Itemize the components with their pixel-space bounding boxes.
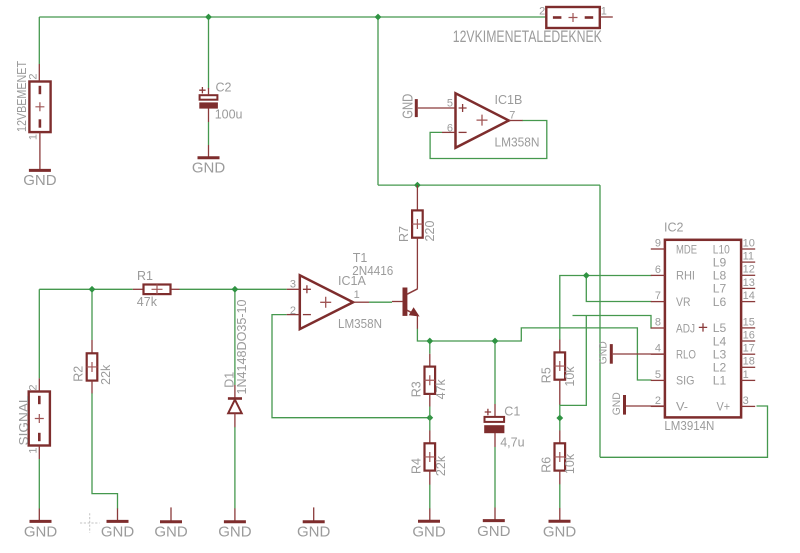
connector 12VBEMENET pin mark 2 — [39, 86, 42, 94]
diode D1 bottom lead — [234, 413, 236, 427]
svg-text:GND: GND — [154, 524, 188, 541]
connector SIGNAL pin mark 2 — [38, 396, 41, 404]
svg-text:12VKIMENETALEDEKNEK: 12VKIMENETALEDEKNEK — [453, 28, 602, 46]
pin 7 lead of IC2 (VR) — [651, 301, 665, 303]
svg-text:2: 2 — [539, 6, 545, 18]
ground GND below C1 — [483, 519, 505, 522]
ground lead R6 — [559, 508, 561, 521]
svg-text:15: 15 — [743, 316, 755, 328]
connector SIGNAL pin lead 1 bottom — [38, 446, 40, 459]
svg-text:9: 9 — [655, 237, 661, 249]
svg-text:V+: V+ — [717, 400, 731, 414]
op-amp IC1A pin3 lead — [287, 288, 300, 290]
resistor R2 body — [87, 353, 98, 380]
op-amp IC1B pin7 output lead — [509, 120, 523, 122]
ground GND orphan left — [160, 520, 182, 523]
resistor R5 top lead — [559, 340, 561, 353]
svg-text:R3: R3 — [409, 381, 423, 397]
op-amp IC1A triangle — [300, 275, 353, 329]
transistor T1 emitter diagonal — [407, 310, 418, 315]
ground lead C2 — [208, 145, 210, 158]
resistor R5 body — [555, 352, 566, 379]
svg-text:17: 17 — [743, 343, 755, 355]
transistor T1 base lead — [392, 301, 403, 303]
wire R6 bottom to GND — [559, 484, 561, 508]
capacitor C1 top lead — [494, 404, 496, 417]
wire C1 bottom to GND — [494, 447, 496, 508]
wire R3 bottom to node — [429, 407, 431, 418]
svg-text:L9: L9 — [713, 255, 727, 269]
capacitor C2 top lead — [208, 88, 210, 95]
svg-text:R7: R7 — [397, 226, 411, 242]
svg-text:16: 16 — [743, 329, 755, 341]
junction node D1 on signal net — [232, 286, 239, 293]
op-amp IC1A origin cross — [320, 297, 331, 308]
op-amp IC1A pin2 lead — [287, 314, 300, 316]
svg-text:10: 10 — [743, 237, 755, 249]
svg-text:5: 5 — [655, 369, 661, 381]
svg-text:GND: GND — [218, 524, 252, 541]
wire signal net left segment — [39, 288, 133, 290]
svg-text:R5: R5 — [540, 367, 554, 383]
junction node C1 emitter — [492, 338, 499, 345]
svg-text:LM358N: LM358N — [338, 317, 382, 331]
svg-text:1: 1 — [28, 134, 40, 140]
op-amp IC1A plus input mark — [303, 285, 311, 293]
op-amp IC1B minus input mark — [459, 131, 467, 133]
resistor R4 body — [425, 443, 436, 470]
junction node R2 on signal net — [89, 286, 96, 293]
capacitor C2 top plate — [200, 95, 218, 100]
ground lead SIGNAL — [38, 509, 40, 522]
pin 12 lead of IC2 (L8) — [741, 274, 755, 276]
svg-text:1: 1 — [743, 369, 749, 381]
capacitor C1 top plate — [485, 417, 505, 422]
svg-text:RLO: RLO — [676, 348, 696, 362]
svg-text:2: 2 — [28, 73, 40, 79]
wire SIGNAL pin1 to GND — [38, 459, 40, 509]
resistor R3 top lead — [429, 354, 431, 367]
svg-text:IC1B: IC1B — [495, 93, 523, 107]
transistor T1 emitter lead down — [416, 316, 418, 329]
wire mid 12V rail — [378, 184, 600, 186]
connector 12VKIMENETALEDEKNEK pin mark 2 — [553, 16, 562, 19]
ground GND below R4 — [418, 520, 440, 523]
ground lead D1 — [234, 508, 236, 521]
connector SIGNAL body — [29, 392, 50, 446]
capacitor C1 bottom lead — [494, 433, 496, 447]
connector SIGNAL pin lead 2 top — [38, 378, 40, 391]
connector SIGNAL origin cross — [35, 414, 44, 423]
diode D1 top lead — [234, 385, 236, 398]
pin 9 lead of IC2 (MDE) — [651, 248, 665, 250]
svg-text:R2: R2 — [71, 366, 85, 382]
wire 12V top rail — [39, 16, 546, 18]
svg-text:47k: 47k — [137, 295, 158, 309]
pin 5 lead of IC2 (SIG) — [651, 379, 665, 381]
resistor R4 top lead — [429, 431, 431, 444]
svg-text:7: 7 — [655, 290, 661, 302]
svg-text:GND: GND — [24, 524, 58, 541]
svg-text:100u: 100u — [215, 108, 243, 122]
wire ADJ horizontal — [573, 316, 652, 329]
svg-text:L10: L10 — [713, 242, 730, 256]
connector 12VBEMENET origin cross — [35, 102, 44, 111]
wire SIGNAL connector drop — [38, 289, 40, 378]
op-amp IC1A pin1 output lead — [353, 301, 369, 303]
resistor R3 bottom lead — [429, 394, 431, 407]
svg-text:47k: 47k — [434, 378, 448, 399]
wire RHI to VR link — [586, 276, 651, 302]
svg-text:4,7u: 4,7u — [500, 436, 524, 450]
svg-text:6: 6 — [655, 264, 661, 276]
svg-text:8: 8 — [655, 316, 661, 328]
wire R5 bottom node — [559, 404, 561, 431]
svg-text:GND: GND — [412, 524, 446, 541]
resistor R6 body — [555, 443, 566, 470]
svg-text:R6: R6 — [540, 457, 554, 473]
resistor R6 top lead — [559, 431, 561, 444]
transistor T1 collector wire — [416, 252, 418, 289]
ground GND below D1 — [224, 520, 246, 523]
svg-text:LM3914N: LM3914N — [664, 419, 714, 433]
connector 12VKIMENETALEDEKNEK pin 1 lead — [600, 16, 613, 18]
transistor T1 emitter arrow — [410, 308, 419, 316]
svg-text:L7: L7 — [713, 282, 727, 296]
ground lead R4 — [429, 508, 431, 521]
resistor R4 bottom lead — [429, 471, 431, 485]
ground stub left orphan — [170, 507, 172, 521]
svg-text:L5: L5 — [713, 321, 727, 335]
wire node to R4 top — [429, 418, 431, 431]
resistor R7 top lead — [416, 185, 418, 210]
svg-text:22k: 22k — [99, 364, 113, 385]
connector 12VKIMENETALEDEKNEK origin cross — [569, 13, 578, 22]
svg-text:L3: L3 — [713, 348, 727, 362]
ground GND below C2 — [198, 156, 220, 159]
capacitor C2 polarity plus — [199, 87, 205, 93]
wire 12V rail drop to 12VBEMENET — [38, 17, 40, 64]
pin 14 lead of IC2 (L6) — [741, 301, 755, 303]
capacitor C1 bottom plate — [485, 426, 504, 433]
svg-text:1: 1 — [601, 6, 607, 18]
svg-text:6: 6 — [447, 122, 453, 134]
svg-text:L8: L8 — [713, 269, 727, 283]
wire emitter node horizontal — [417, 328, 651, 380]
svg-text:13: 13 — [743, 277, 755, 289]
svg-text:T1: T1 — [353, 251, 368, 265]
svg-text:C2: C2 — [216, 80, 232, 94]
transistor T1 collector diagonal — [407, 289, 418, 295]
capacitor C2 bottom lead — [208, 108, 210, 122]
wire V+ vertical — [599, 185, 601, 457]
connector 12VKIMENETALEDEKNEK pin mark 1 — [585, 16, 594, 19]
wire C2 top branch — [208, 17, 210, 89]
wire IC1A output to T1 base — [369, 301, 392, 303]
svg-text:MDE: MDE — [676, 242, 697, 256]
pin 18 lead of IC2 (L2) — [741, 366, 755, 368]
pin 10 lead of IC2 (L10) — [741, 248, 755, 250]
ground lead C1 — [494, 508, 496, 521]
svg-text:3: 3 — [743, 395, 749, 407]
wire R5-R6 node tap to ADJ — [560, 316, 587, 406]
diode D1 triangle — [228, 400, 242, 414]
resistor R1 left lead — [133, 288, 144, 290]
wire R2 bottom to GND jog — [92, 393, 118, 509]
svg-text:VR: VR — [676, 295, 691, 309]
ground V- lead to pin 2 — [626, 405, 665, 407]
connector 12VBEMENET pin lead 2 top — [38, 64, 40, 81]
svg-text:10k: 10k — [563, 453, 577, 474]
junction node RHI-VR — [583, 272, 590, 279]
ground GND below SIGNAL — [30, 520, 52, 523]
connector 12VBEMENET body — [29, 82, 50, 133]
pin 6 lead of IC2 (RHI) — [651, 274, 665, 276]
svg-text:12: 12 — [743, 264, 755, 276]
svg-text:7: 7 — [509, 109, 515, 121]
pin 4 lead of IC2 (RLO) — [651, 353, 665, 355]
svg-text:2: 2 — [290, 305, 296, 317]
svg-text:L1: L1 — [713, 374, 727, 388]
resistor R7 bottom lead to T1 collector — [416, 238, 418, 252]
ground GND at IC1B pin5 (rotated) — [415, 99, 418, 117]
svg-text:22k: 22k — [434, 455, 448, 476]
svg-text:11: 11 — [743, 251, 754, 263]
ground GND below 12VBEMENET — [29, 169, 51, 172]
resistor R2 top lead — [91, 340, 93, 353]
resistor R6 bottom lead — [559, 471, 561, 485]
svg-text:2: 2 — [655, 395, 661, 407]
svg-text:12VBEMENET: 12VBEMENET — [15, 61, 29, 132]
IC U-IC2 LM3914N body — [665, 240, 741, 418]
pin name ADJ plus mark — [699, 323, 707, 331]
ground GND below R2 — [107, 520, 129, 523]
resistor R1 body — [144, 285, 171, 295]
svg-text:18: 18 — [743, 356, 755, 368]
svg-text:GND: GND — [543, 524, 577, 541]
op-amp IC1A minus input mark — [303, 314, 311, 316]
junction node R7 on mid rail — [414, 182, 421, 189]
svg-text:RHI: RHI — [676, 269, 695, 283]
junction node R3 emitter — [426, 338, 433, 345]
wire C1 branch — [494, 341, 496, 404]
resistor R3 body — [425, 367, 436, 394]
svg-text:GND: GND — [598, 341, 610, 364]
connector SIGNAL pin mark 1 — [38, 433, 41, 441]
svg-text:ADJ: ADJ — [676, 321, 695, 335]
svg-text:3: 3 — [290, 279, 296, 291]
wire C2 to GND — [208, 122, 210, 145]
connector 12VKIMENETALEDEKNEK body — [546, 7, 600, 28]
pin 16 lead of IC2 (L4) — [741, 340, 755, 342]
op-amp IC1B origin cross — [477, 115, 488, 126]
svg-text:L2: L2 — [713, 361, 727, 375]
ground GND at V- pin (rotated) — [623, 395, 626, 415]
svg-text:2: 2 — [28, 384, 40, 390]
svg-text:220: 220 — [423, 221, 437, 242]
connector 12VBEMENET pin mark 1 — [39, 119, 42, 127]
svg-text:R1: R1 — [137, 269, 153, 283]
svg-text:GND: GND — [101, 524, 135, 541]
wire R3 top branch — [429, 341, 431, 354]
wire D1 cathode to GND — [234, 427, 236, 509]
junction node R3-R4 feedback — [426, 414, 433, 421]
svg-text:GND: GND — [400, 94, 416, 119]
junction node R5-R6 — [556, 415, 563, 422]
op-amp IC1B triangle — [456, 93, 509, 148]
svg-text:1: 1 — [354, 289, 360, 301]
ground stub right orphan — [313, 507, 315, 521]
svg-text:SIG: SIG — [676, 374, 695, 388]
svg-text:L4: L4 — [713, 334, 727, 348]
svg-text:GND: GND — [477, 523, 511, 540]
pin 17 lead of IC2 (L3) — [741, 353, 755, 355]
svg-text:GND: GND — [611, 392, 623, 415]
wire V+ bottom return — [600, 406, 768, 457]
svg-text:LM358N: LM358N — [495, 136, 540, 150]
pin 15 lead of IC2 (L5) — [741, 327, 755, 329]
svg-text:IC2: IC2 — [664, 220, 684, 234]
resistor R1 right lead — [171, 288, 180, 290]
svg-text:R4: R4 — [409, 458, 423, 474]
svg-text:1: 1 — [28, 447, 40, 453]
svg-text:GND: GND — [192, 160, 226, 177]
ground GND at RLO pin (rotated) — [610, 344, 613, 364]
op-amp IC1B plus input mark — [459, 104, 467, 112]
diode D1 cathode bar — [228, 397, 242, 400]
ground lead R2 — [117, 508, 119, 521]
resistor R2 bottom lead — [91, 381, 93, 394]
junction node C2 on 12V rail — [205, 14, 212, 21]
ground GND orphan right — [303, 520, 325, 523]
svg-text:10k: 10k — [563, 366, 577, 387]
wire IC1B output feedback loop — [430, 121, 547, 159]
wire main 12V vertical to mid rail — [377, 17, 379, 185]
pin 11 lead of IC2 (L9) — [741, 261, 755, 263]
svg-text:IC1A: IC1A — [338, 274, 366, 288]
ground GND below R6 — [549, 520, 571, 523]
wire D1 branch down — [234, 289, 236, 385]
transistor T1 base bar — [403, 288, 407, 315]
resistor R5 bottom lead — [559, 380, 561, 405]
svg-text:V-: V- — [676, 400, 688, 414]
svg-text:C1: C1 — [504, 405, 520, 419]
pin 8 lead of IC2 (ADJ) — [651, 327, 665, 329]
junction node main vertical on 12V rail — [375, 14, 382, 21]
connector 12VBEMENET pin lead 1 to GND — [39, 132, 41, 170]
svg-text:L6: L6 — [713, 295, 727, 309]
op-amp IC1B pin5 lead from GND — [418, 107, 456, 109]
ground RLO lead to pin 4 — [613, 353, 665, 355]
pin 2 lead of IC2 (V-) — [651, 405, 665, 407]
wire signal net R1 to IC1A pin3 — [180, 288, 287, 290]
svg-text:GND: GND — [297, 524, 331, 541]
pin 3 lead of IC2 (V+) — [741, 405, 755, 407]
op-amp IC1B pin6 lead — [442, 131, 456, 133]
svg-text:14: 14 — [743, 290, 755, 302]
svg-text:1N4148DO35-10: 1N4148DO35-10 — [235, 299, 249, 394]
svg-text:SIGNAL: SIGNAL — [17, 395, 31, 445]
wire IC1A feedback pin2 loop — [272, 315, 430, 418]
capacitor C2 bottom plate — [200, 103, 218, 108]
wire R2 branch down — [91, 289, 93, 340]
svg-text:4: 4 — [655, 343, 661, 355]
pin 1 lead of IC2 (L1) — [741, 379, 755, 381]
wire RHI net — [560, 276, 652, 340]
wire R4 bottom to GND — [429, 485, 431, 509]
origin cross marker near R2 ground — [80, 513, 100, 533]
svg-text:5: 5 — [447, 98, 453, 110]
pin 13 lead of IC2 (L7) — [741, 287, 755, 289]
capacitor C1 polarity plus — [485, 409, 491, 415]
svg-text:GND: GND — [23, 172, 57, 189]
resistor R7 body — [412, 210, 423, 237]
